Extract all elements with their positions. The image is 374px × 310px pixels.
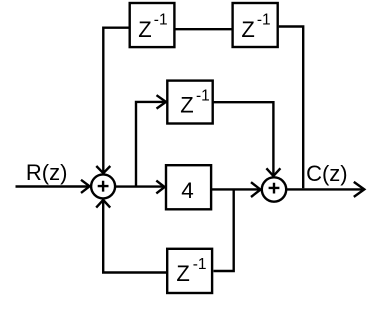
wire Z2 to output line: [279, 27, 303, 189]
summing junction S2: [262, 177, 286, 201]
wire tap down to delay Z5: [214, 189, 234, 271]
delay block Z1: [130, 3, 175, 47]
svg-text:-1: -1: [196, 88, 210, 105]
svg-text:-1: -1: [154, 12, 168, 29]
wire between Z1 and Z2: [176, 28, 232, 30]
gain block 4: [166, 165, 211, 209]
svg-text:R(z): R(z): [26, 160, 68, 185]
svg-text:C(z): C(z): [306, 161, 348, 186]
summing junction S1: [91, 174, 115, 198]
wire Z5 output to S1 bottom: [96, 200, 166, 273]
wire gain output to S2: [212, 182, 261, 197]
delay block Z3: [167, 81, 212, 124]
wire top feedback into S1: [96, 28, 128, 174]
wire branch up to delay Z3: [136, 95, 166, 186]
svg-text:Z: Z: [138, 17, 151, 42]
svg-text:Z: Z: [180, 93, 193, 118]
svg-text:Z: Z: [176, 261, 189, 286]
delay block Z2: [233, 3, 278, 47]
svg-text:-1: -1: [193, 256, 207, 273]
svg-text:4: 4: [181, 178, 194, 203]
svg-text:-1: -1: [257, 12, 271, 29]
wire Z3 output to S2 top: [214, 102, 281, 176]
wire C(z) output: [287, 182, 365, 197]
wire S1 to gain block: [116, 181, 165, 194]
delay block Z5: [167, 249, 212, 293]
wire R(z) input: [16, 180, 90, 193]
svg-text:Z: Z: [241, 17, 254, 42]
